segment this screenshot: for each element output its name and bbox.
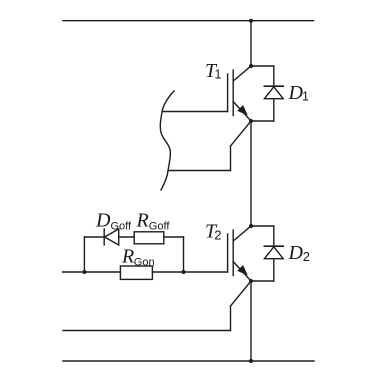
- wire gate line right segment: [152, 271, 227, 273]
- wire T2 auxiliary emitter: [63, 281, 251, 331]
- node top bus junction: [249, 19, 253, 23]
- svg-text:R: R: [121, 246, 134, 268]
- svg-text:D: D: [95, 210, 111, 232]
- node bottom bus junction: [249, 359, 253, 363]
- svg-text:1: 1: [302, 90, 309, 104]
- svg-text:1: 1: [215, 68, 222, 82]
- transistor T2: [228, 226, 251, 281]
- svg-text:Gon: Gon: [134, 257, 155, 269]
- label T2: [205, 221, 221, 243]
- svg-text:Goff: Goff: [149, 221, 171, 233]
- wire gate line left segment: [63, 271, 121, 273]
- transistor T1: [164, 66, 252, 121]
- wire bottom bus: [63, 360, 314, 362]
- label D2: [288, 242, 311, 264]
- svg-text:R: R: [136, 210, 149, 232]
- svg-text:2: 2: [303, 249, 310, 264]
- svg-text:2: 2: [214, 228, 221, 243]
- resistor RGon: [120, 266, 152, 279]
- break squiggle: [160, 91, 174, 190]
- label D1: [288, 82, 310, 104]
- node T1 emitter: [249, 119, 253, 123]
- wire vertical bus top segment: [250, 21, 252, 66]
- svg-text:Goff: Goff: [111, 221, 133, 233]
- svg-text:D: D: [288, 242, 304, 264]
- diode DGoff: [104, 229, 134, 245]
- wire top bus: [63, 20, 314, 22]
- label RGoff: [136, 210, 171, 233]
- node gate line right junction: [182, 270, 186, 274]
- node T2 collector: [249, 224, 253, 228]
- resistor RGoff: [134, 232, 164, 244]
- diode D2: [251, 226, 283, 281]
- wire top branch right riser: [183, 237, 185, 272]
- label DGoff: [95, 210, 132, 233]
- node gate line left junction: [82, 270, 86, 274]
- wire gate network top branch left riser: [83, 237, 85, 272]
- node T1 collector: [249, 64, 253, 68]
- wire T1 auxiliary emitter: [168, 121, 251, 171]
- wire vertical bus bottom segment: [250, 281, 252, 361]
- wire top branch left segment: [84, 236, 104, 238]
- node T2 emitter: [249, 279, 253, 283]
- wire vertical bus middle segment: [250, 121, 252, 226]
- label RGon: [121, 246, 155, 269]
- label T1: [205, 60, 222, 82]
- diode D1: [251, 66, 283, 121]
- wire top branch right segment: [164, 236, 184, 238]
